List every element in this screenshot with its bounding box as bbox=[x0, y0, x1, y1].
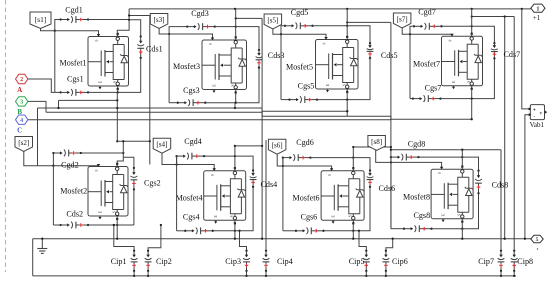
capacitor Cgd6 bbox=[282, 154, 312, 161]
mosfet block Mosfet5 bbox=[316, 36, 359, 93]
svg-text:Cds1: Cds1 bbox=[146, 45, 163, 54]
node: D5 chain dot bbox=[346, 21, 348, 23]
svg-text:Cip3: Cip3 bbox=[225, 257, 241, 266]
svg-text:Mosfet5: Mosfet5 bbox=[286, 63, 313, 72]
svg-text:Cgs3: Cgs3 bbox=[183, 86, 200, 95]
svg-text:E: E bbox=[212, 84, 217, 87]
node: S1 join bbox=[117, 91, 119, 93]
mosfet block Mosfet8 bbox=[431, 166, 473, 223]
flag [s6] bbox=[268, 139, 286, 154]
wire: Cds4 bottom bbox=[235, 187, 253, 231]
label Cgd3 bbox=[191, 9, 209, 18]
node: S1-D2 dot bbox=[116, 140, 118, 142]
svg-text:S: S bbox=[230, 215, 234, 217]
wire: cell2 top link bbox=[117, 140, 150, 142]
capacitor Cds6 bbox=[367, 169, 374, 188]
wire: D8 riser bbox=[461, 150, 463, 167]
wire: S8 drop bbox=[461, 222, 463, 239]
svg-text:[s7]: [s7] bbox=[397, 15, 408, 23]
label Mosfet5 bbox=[286, 63, 313, 72]
wire: Cgs7 to source bbox=[441, 98, 472, 100]
node: Cgd7-D bbox=[471, 25, 473, 27]
svg-text:A: A bbox=[17, 86, 22, 94]
label Cds6 bbox=[379, 184, 396, 193]
wire: Cds1 feed bbox=[129, 20, 141, 37]
wire: s5 gate run bbox=[273, 29, 326, 39]
wire: Cgd8 to drain bbox=[419, 156, 463, 158]
flag [s7] bbox=[393, 13, 411, 28]
wire: Cgs6 to source bbox=[324, 230, 354, 232]
wire: chain drop out bbox=[504, 17, 506, 239]
svg-text:Cgd6: Cgd6 bbox=[296, 138, 314, 147]
wire: Cip3 riser bbox=[240, 231, 247, 251]
wire: hex3 feed bbox=[28, 101, 46, 112]
svg-text:[s1]: [s1] bbox=[35, 15, 47, 24]
wire: Cgs5 lead bbox=[281, 99, 290, 101]
wire: Cgs8 lead bbox=[391, 228, 404, 230]
node: Cip7 bus bbox=[500, 275, 502, 277]
capacitor Cip8 bbox=[511, 250, 518, 272]
svg-text:Cds3: Cds3 bbox=[268, 51, 285, 60]
svg-text:Cip8: Cip8 bbox=[517, 257, 533, 266]
node: bus junction M7 bbox=[471, 8, 473, 10]
flag [s2] bbox=[15, 137, 33, 152]
node: S3 busA bbox=[234, 107, 236, 109]
wire: S5 to busA bbox=[346, 100, 348, 117]
node: s5 gate junction bbox=[280, 33, 282, 35]
svg-text:Mosfet3: Mosfet3 bbox=[173, 62, 200, 71]
label Cip7 bbox=[478, 257, 494, 266]
wire: Cgs4 to source bbox=[213, 230, 235, 232]
svg-text:Cgd4: Cgd4 bbox=[184, 137, 202, 146]
svg-text:tb: tb bbox=[449, 38, 452, 42]
wire: Cds7 feed bbox=[472, 26, 495, 43]
wire: S1-D2 link bbox=[116, 108, 118, 141]
svg-text:[s5]: [s5] bbox=[267, 16, 278, 24]
capacitor Cds7 bbox=[491, 42, 498, 60]
wire: Cip4 to bus bbox=[265, 271, 267, 276]
mosfet block Mosfet6 bbox=[321, 167, 364, 224]
wire: Cgs3 lead bbox=[169, 102, 178, 104]
capacitor Cgs3 bbox=[177, 99, 207, 106]
label Cgd7 bbox=[418, 8, 436, 17]
mosfet block Mosfet7 bbox=[442, 33, 483, 90]
svg-text:[s8]: [s8] bbox=[371, 138, 382, 146]
capacitor Cgd5 bbox=[284, 22, 314, 29]
wire: Cds3 feed bbox=[236, 27, 259, 50]
node: S2 bus bbox=[116, 238, 118, 240]
node: Cip5 bus bbox=[365, 275, 367, 277]
node: bus junction M5 bbox=[346, 8, 348, 10]
wire: bus B bbox=[46, 112, 472, 119]
label Mosfet4 bbox=[176, 193, 203, 202]
svg-text:Cgd5: Cgd5 bbox=[291, 8, 309, 17]
svg-text:S: S bbox=[113, 81, 117, 83]
label Cip6 bbox=[392, 257, 408, 266]
wire: Cip8 riser bbox=[513, 17, 515, 251]
wire: Cgd6 to drain bbox=[310, 157, 353, 159]
svg-text:C: C bbox=[17, 127, 22, 135]
label Mosfet1 bbox=[60, 58, 87, 67]
wire: s5 Cgs riser bbox=[280, 34, 282, 99]
node: S4 bus bbox=[234, 238, 236, 240]
wire: D3 riser bbox=[235, 9, 237, 38]
svg-text:E: E bbox=[451, 80, 456, 83]
svg-text:[s4]: [s4] bbox=[156, 141, 167, 149]
svg-text:S: S bbox=[231, 85, 235, 87]
wire: D5 chain link bbox=[347, 21, 391, 23]
wire: S7 drop bbox=[471, 89, 473, 99]
svg-text:E: E bbox=[98, 80, 103, 83]
node: chain5 bus dot bbox=[261, 238, 263, 240]
svg-text:2: 2 bbox=[20, 76, 23, 83]
node: chain join 2 bbox=[149, 140, 151, 142]
flag [s8] bbox=[368, 136, 386, 151]
svg-text:tb: tb bbox=[95, 169, 98, 173]
capacitor Cgd8 bbox=[390, 154, 420, 161]
label Cgs1 bbox=[67, 75, 84, 84]
wire: S3 drop bbox=[235, 93, 237, 103]
wire: cell6 top link bbox=[353, 146, 391, 148]
svg-text:Mosfet7: Mosfet7 bbox=[413, 59, 440, 68]
capacitor Cgd7 bbox=[413, 23, 443, 30]
label Cds8 bbox=[492, 181, 509, 190]
frame: left dashed border bbox=[5, 0, 7, 272]
svg-text:Cgs4: Cgs4 bbox=[183, 213, 200, 222]
wire: Vab- sense bbox=[525, 115, 529, 239]
label Cgd6 bbox=[296, 138, 314, 147]
node: s1 gate junction bbox=[54, 30, 56, 32]
wire: S3 to busA bbox=[234, 103, 236, 108]
label C bbox=[17, 127, 22, 135]
wire: chain drop s3 bbox=[149, 16, 151, 165]
wire: bus A left drop bbox=[37, 108, 39, 166]
label Cgd5 bbox=[291, 8, 309, 17]
node: s6 gate junction bbox=[282, 165, 284, 167]
node 4 (C) bbox=[16, 115, 28, 124]
svg-text:Mosfet4: Mosfet4 bbox=[176, 193, 203, 202]
wire: Cip2 to bus bbox=[147, 271, 149, 276]
label Cgs3 bbox=[183, 86, 200, 95]
terminal 1 bbox=[531, 4, 545, 12]
wire: Cgd2 to drain bbox=[81, 152, 123, 154]
wire: Cip1 to bus bbox=[133, 271, 135, 276]
wire: cell8 top link bbox=[391, 149, 501, 151]
dot below 5 bbox=[537, 248, 538, 249]
svg-text:Cds5: Cds5 bbox=[381, 51, 398, 60]
mosfet block Mosfet1 bbox=[88, 33, 129, 90]
capacitor Cip3 bbox=[243, 250, 250, 272]
node: Cgd1-D bbox=[128, 19, 130, 21]
svg-text:Cds6: Cds6 bbox=[379, 184, 396, 193]
wire: Cgd5 to drain bbox=[313, 25, 348, 27]
label Cgs6 bbox=[301, 213, 318, 222]
label Cip8 bbox=[517, 257, 533, 266]
node: Cip2 tap bbox=[160, 224, 162, 226]
wire: s7 gate run bbox=[402, 28, 452, 36]
svg-text:Mosfet1: Mosfet1 bbox=[60, 58, 87, 67]
svg-text:tb: tb bbox=[211, 173, 214, 177]
label Mosfet8 bbox=[403, 193, 430, 202]
wire: s6 gate run bbox=[277, 154, 331, 170]
wire: Vab+ sense drop bbox=[522, 9, 530, 109]
label Cgs5 bbox=[298, 82, 315, 91]
capacitor Cgs7 bbox=[412, 95, 442, 102]
wire: Cip6 riser bbox=[386, 239, 393, 251]
wire: output bus to node 5 bbox=[33, 238, 532, 240]
svg-text:Mosfet6: Mosfet6 bbox=[293, 193, 320, 202]
wire: s1 gate run bbox=[41, 28, 99, 36]
wire: D6 riser bbox=[352, 147, 354, 168]
wire: S4 drop bbox=[234, 223, 236, 238]
node: S8 join bbox=[461, 228, 463, 230]
svg-text:tb: tb bbox=[323, 42, 326, 46]
wire: Cds1 bottom bbox=[118, 58, 141, 93]
node: Cip6 tap bbox=[392, 238, 394, 240]
wire: Cds7 bottom bbox=[472, 58, 495, 98]
wire: Cip3 to bus bbox=[246, 271, 248, 276]
node: Cip1 cross bbox=[113, 224, 115, 226]
node: chain join 4 bbox=[261, 145, 263, 147]
node: Vab- tap bbox=[524, 238, 526, 240]
node: bus junction M3 bbox=[234, 8, 236, 10]
label +1 bbox=[533, 14, 541, 22]
capacitor Cgd4 bbox=[175, 153, 205, 160]
wire: D1 riser jog bbox=[117, 9, 129, 37]
wire: bus C bbox=[28, 119, 391, 121]
capacitor Cgs5 bbox=[288, 96, 318, 103]
wire: s6 Cgs riser bbox=[282, 158, 284, 231]
node: Cip4 bus bbox=[265, 275, 267, 277]
svg-text:Vab1: Vab1 bbox=[530, 121, 545, 129]
flag [s4] bbox=[153, 138, 171, 153]
node: D1 chain dot bbox=[128, 14, 130, 16]
node: s8 gate junction bbox=[390, 161, 392, 163]
label Cgs7 bbox=[425, 84, 442, 93]
node: S1 dots bbox=[116, 99, 118, 109]
svg-text:5: 5 bbox=[536, 237, 539, 243]
wire: D3 chain link bbox=[236, 17, 262, 19]
svg-text:Cgs8: Cgs8 bbox=[413, 211, 430, 220]
label Cgs2 bbox=[144, 179, 161, 188]
label Cgd4 bbox=[184, 137, 202, 146]
svg-text:Cip4: Cip4 bbox=[277, 257, 293, 266]
wire: Cds5 feed bbox=[347, 26, 370, 43]
wire: Cgd4 to drain bbox=[204, 155, 235, 157]
wire: Cgd1 to drain bbox=[88, 19, 129, 21]
svg-text:Mosfet8: Mosfet8 bbox=[403, 193, 430, 202]
svg-text:1: 1 bbox=[536, 5, 539, 12]
wire: cell1 S segment bbox=[59, 99, 118, 101]
capacitor Cgs6 bbox=[295, 227, 325, 234]
wire: s3 Cgs riser bbox=[168, 34, 170, 103]
svg-text:S: S bbox=[349, 215, 353, 217]
capacitor Cds4 bbox=[250, 169, 257, 188]
wire: s7 gate-cap riser bbox=[410, 26, 414, 34]
node: S6 join bbox=[352, 230, 354, 232]
wire: A feed bbox=[28, 79, 55, 92]
svg-text:E: E bbox=[213, 215, 218, 218]
wire: Cip7 riser bbox=[500, 150, 502, 251]
node 2 (A) bbox=[16, 74, 28, 83]
svg-text:Cds2: Cds2 bbox=[66, 210, 83, 219]
node: S5 join bbox=[346, 98, 348, 100]
mosfet block Mosfet4 bbox=[204, 167, 246, 224]
svg-text:v: v bbox=[539, 111, 542, 117]
wire: Cip6 to bus bbox=[385, 271, 387, 276]
label Mosfet3 bbox=[173, 62, 200, 71]
svg-text:3: 3 bbox=[20, 99, 23, 106]
node: S3 join bbox=[235, 102, 237, 104]
svg-text:Cip2: Cip2 bbox=[156, 257, 172, 266]
wire: Cip4 riser bbox=[265, 140, 267, 251]
wire: Cgs8 to source bbox=[432, 228, 463, 230]
svg-text:S: S bbox=[467, 81, 471, 83]
label Cds5 bbox=[381, 51, 398, 60]
label Cds3 bbox=[268, 51, 285, 60]
wire: bottom ground bus bbox=[33, 275, 516, 277]
label Cds2 bbox=[66, 210, 83, 219]
node: Cgd6-D bbox=[352, 156, 354, 158]
node: Cip8 bus bbox=[513, 275, 515, 277]
svg-text:tb: tb bbox=[95, 39, 98, 43]
wire: Cds5 bottom bbox=[347, 58, 370, 100]
capacitor Cds3 bbox=[256, 49, 263, 69]
capacitor Cgd1 bbox=[59, 16, 89, 23]
label Cip2 bbox=[156, 257, 172, 266]
svg-text:tb: tb bbox=[438, 171, 441, 175]
node: Cip2 bus bbox=[147, 275, 149, 277]
wire: s6 gate-cap riser bbox=[282, 158, 284, 166]
node: s4 gate junction bbox=[175, 163, 177, 165]
wire: Cds8 bottom bbox=[462, 193, 478, 228]
wire: Cip8 to bus bbox=[513, 271, 515, 276]
label Cgs8 bbox=[413, 211, 430, 220]
capacitor Cip7 bbox=[498, 250, 505, 272]
wire: D7 chain link bbox=[472, 16, 515, 18]
label Cds1 bbox=[146, 45, 163, 54]
wire: Cip5 to bus bbox=[365, 271, 367, 276]
capacitor Cgd3 bbox=[186, 23, 216, 30]
capacitor Cip1 bbox=[131, 250, 138, 272]
svg-text:Cds7: Cds7 bbox=[504, 50, 521, 59]
wire: left return drop bbox=[32, 239, 34, 276]
wire: cell4 top link bbox=[235, 145, 262, 147]
wire: S2 drop bbox=[116, 219, 118, 239]
wire: Cgs4 lead bbox=[177, 230, 186, 232]
node: Cgd8-D bbox=[461, 156, 463, 158]
node: D6 top bbox=[352, 146, 354, 148]
svg-text:Cgs6: Cgs6 bbox=[301, 213, 318, 222]
node: ground tap bbox=[41, 238, 43, 240]
capacitor Cip5 bbox=[363, 250, 370, 272]
svg-text:[s3]: [s3] bbox=[154, 16, 165, 24]
node: s2 gate junction bbox=[52, 165, 54, 167]
wire: S6 drop bbox=[352, 223, 354, 238]
wire: S1 to seg bbox=[116, 92, 118, 108]
label Cgd2 bbox=[61, 160, 79, 169]
node: S6 bus bbox=[352, 238, 354, 240]
svg-text:Cip5: Cip5 bbox=[349, 257, 365, 266]
wire: chain drop s5 bbox=[261, 18, 263, 238]
flag [s3] bbox=[150, 14, 168, 29]
node: Cip1 bus bbox=[133, 275, 135, 277]
wire: Cgs2 top link bbox=[123, 157, 134, 168]
node: s3 gate junction bbox=[168, 33, 170, 35]
label A bbox=[17, 86, 22, 94]
wire: chain drop s7 bbox=[390, 22, 392, 228]
svg-text:+1: +1 bbox=[533, 14, 541, 22]
svg-text:S: S bbox=[458, 214, 462, 216]
capacitor Cip6 bbox=[383, 250, 390, 272]
wire: D4 riser bbox=[234, 146, 236, 168]
capacitor Cgs4 bbox=[184, 227, 214, 234]
wire: Cds4 feed bbox=[235, 156, 253, 170]
capacitor Cip4 bbox=[263, 250, 270, 272]
wire: Cgs2 bottom bbox=[133, 189, 135, 225]
wire: Cds3 bottom bbox=[236, 68, 259, 103]
wire: Cds6 bottom bbox=[353, 187, 370, 231]
svg-text:Cgd2: Cgd2 bbox=[61, 160, 79, 169]
wire: s4 gate run bbox=[162, 153, 214, 170]
svg-text:Cgd8: Cgd8 bbox=[408, 139, 426, 148]
wire: s7 Cgs riser bbox=[409, 34, 411, 98]
svg-text:[s2]: [s2] bbox=[18, 139, 29, 147]
svg-text:tb: tb bbox=[328, 173, 331, 177]
svg-text:Cgd3: Cgd3 bbox=[191, 9, 209, 18]
node: Cgd3-D bbox=[235, 25, 237, 27]
label Cip1 bbox=[111, 257, 127, 266]
svg-text:Cgs1: Cgs1 bbox=[67, 75, 84, 84]
wire: s1 Cgs riser bbox=[54, 31, 56, 93]
capacitor Cds5 bbox=[367, 42, 374, 59]
svg-text:Cds4: Cds4 bbox=[261, 180, 278, 189]
node: Cip5 tap bbox=[358, 230, 360, 232]
wire: s8 gate run bbox=[376, 150, 442, 168]
wire: bus A bbox=[38, 108, 349, 111]
node: bus junction Vab+ bbox=[521, 8, 523, 10]
node: Cip3 tap bbox=[238, 230, 240, 232]
wire: s8 gate-cap riser bbox=[390, 157, 392, 162]
label Vab1 bbox=[530, 121, 545, 129]
wire: Cgd7 to drain bbox=[442, 25, 472, 27]
node 3 (B) bbox=[16, 97, 28, 106]
flag [s1] bbox=[30, 12, 51, 29]
node: S5 busA bbox=[346, 110, 348, 112]
wire: Cgd3 to drain bbox=[215, 26, 236, 28]
wire: S5 drop bbox=[346, 92, 348, 100]
wire: Cip5 riser bbox=[359, 231, 366, 251]
label Cgd1 bbox=[65, 6, 83, 15]
wire: D2 riser jog bbox=[117, 141, 123, 167]
svg-text:4: 4 bbox=[20, 117, 23, 124]
node: chain join 8 bbox=[390, 149, 392, 151]
label B bbox=[17, 108, 22, 116]
label Mosfet6 bbox=[293, 193, 320, 202]
wire: D1 chain link bbox=[129, 15, 150, 17]
capacitor Cgd2 bbox=[52, 150, 82, 157]
wire: D7 riser bbox=[471, 9, 473, 34]
wire: Cds8 feed bbox=[462, 157, 478, 171]
node: Cip1 tap bbox=[113, 224, 115, 226]
wire: s3 gate run bbox=[159, 28, 212, 39]
capacitor Cds8 bbox=[475, 170, 482, 195]
node: D2 top bbox=[122, 140, 124, 142]
node: S2 cross bbox=[116, 224, 118, 226]
wire: Cgs1 to source bbox=[88, 91, 118, 93]
wire: Cgs5 to source bbox=[317, 99, 347, 101]
svg-text:Cgs5: Cgs5 bbox=[298, 82, 315, 91]
